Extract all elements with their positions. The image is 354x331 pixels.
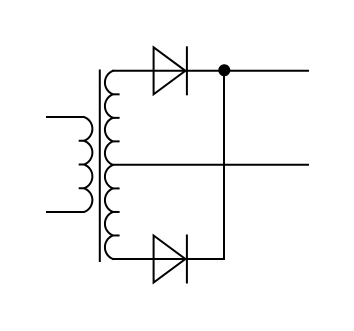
transformer T1 core — [99, 71, 101, 262]
secondary winding crossover tick 2 — [113, 117, 119, 119]
diode D2 triangle (bottom) — [154, 236, 186, 283]
secondary winding crossover tick 3 — [113, 140, 119, 142]
secondary winding crossover tick 1 — [113, 93, 119, 95]
wire: secondary bottom lead (bottom rail) — [113, 258, 224, 260]
secondary winding crossover tick 4 — [113, 187, 119, 189]
transformer T1 secondary winding (center-tapped) — [105, 71, 113, 259]
secondary winding crossover tick 6 — [113, 234, 119, 236]
junction node (solder dot) — [218, 64, 230, 76]
wire: cathode bus from bottom diode up to node — [223, 71, 225, 259]
diode D1 triangle (top) — [154, 47, 186, 94]
wire: center tap to output (middle rail) — [113, 164, 308, 166]
secondary winding crossover tick 5 — [113, 211, 119, 213]
diode D2 cathode bar — [186, 236, 188, 283]
diode D1 cathode bar — [186, 47, 188, 94]
wire: secondary top lead to output (top rail) — [113, 70, 308, 72]
primary winding crossover tick 2 — [80, 164, 85, 166]
transformer T1 primary winding — [47, 117, 92, 212]
primary winding crossover tick 3 — [80, 187, 85, 189]
primary winding crossover tick 1 — [80, 140, 85, 142]
